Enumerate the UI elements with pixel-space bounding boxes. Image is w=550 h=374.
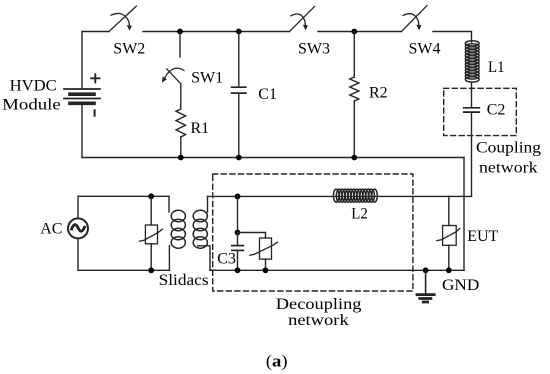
wire C3 bottom bbox=[237, 250, 239, 270]
node dot (R1 bottom) bbox=[178, 155, 184, 161]
transformer secondary lead bbox=[207, 196, 209, 212]
wire right drop from bottom rail to ground rail bbox=[463, 158, 465, 271]
svg-text:EUT: EUT bbox=[467, 228, 498, 245]
wire C3 mid to cap bbox=[237, 233, 239, 246]
battery plus sign bbox=[91, 74, 99, 82]
wire varistor branch bottom bbox=[150, 244, 152, 270]
wire C1 top bbox=[238, 32, 240, 88]
battery HVDC module bbox=[64, 89, 100, 103]
wire C2 down to AC line bbox=[471, 112, 473, 196]
wire to decoupling varistor bbox=[238, 233, 266, 239]
node dot (varistor bottom) bbox=[148, 267, 154, 273]
wire top rail SW2-SW3 segment bbox=[143, 31, 290, 33]
AC sine wave bbox=[72, 225, 85, 231]
node dot (C3 bottom) bbox=[235, 267, 241, 273]
wire R1 to bottom rail bbox=[180, 137, 182, 158]
svg-text:C2: C2 bbox=[487, 102, 506, 119]
transformer secondary coil bbox=[193, 210, 207, 248]
capacitor C3 bbox=[232, 246, 244, 251]
svg-text:R2: R2 bbox=[369, 85, 388, 102]
wire bottom rail bbox=[82, 157, 464, 159]
transformer primary lead bbox=[168, 196, 170, 212]
svg-text:Coupling: Coupling bbox=[476, 139, 541, 156]
node dot (C1 top) bbox=[236, 29, 242, 35]
wire battery bottom to bottom rail bbox=[81, 103, 83, 157]
wire C3 branch upper bbox=[237, 196, 239, 232]
node dot A (SW1 top) bbox=[177, 29, 183, 35]
ground bbox=[417, 270, 434, 302]
node dot (R2 bottom) bbox=[351, 155, 357, 161]
wire EUT branch bbox=[448, 196, 450, 225]
switch SW2 bbox=[109, 6, 136, 31]
svg-text:L1: L1 bbox=[488, 59, 505, 76]
node dot (R2 top) bbox=[351, 29, 357, 35]
wire decoupling varistor bottom bbox=[265, 259, 267, 270]
svg-text:SW2: SW2 bbox=[113, 40, 145, 57]
svg-text:C1: C1 bbox=[258, 86, 277, 103]
coupling network dashed box bbox=[444, 88, 517, 135]
resistor R1 bbox=[176, 109, 185, 137]
wire top rail SW3-SW4 segment bbox=[318, 31, 402, 33]
svg-text:network: network bbox=[288, 312, 349, 329]
switch SW1 bbox=[162, 68, 184, 84]
varistor (decoupling) diagonal bbox=[250, 242, 278, 255]
svg-text:SW4: SW4 bbox=[409, 41, 441, 58]
transformer primary exit bbox=[168, 246, 170, 270]
node dot (varistor top) bbox=[148, 193, 154, 199]
transformer primary coil bbox=[171, 210, 185, 248]
resistor R2 bbox=[350, 77, 359, 101]
svg-text:L2: L2 bbox=[351, 206, 368, 223]
inductor L2 bbox=[333, 189, 377, 202]
svg-text:SW1: SW1 bbox=[191, 70, 223, 87]
svg-text:AC: AC bbox=[40, 220, 62, 237]
node dot (GND stub) bbox=[423, 267, 429, 273]
svg-text:Module: Module bbox=[2, 96, 61, 113]
varistor (slidacs) diagonal bbox=[139, 229, 162, 241]
wire varistor branch top bbox=[150, 196, 152, 225]
wire C1 bottom bbox=[238, 93, 240, 157]
wire AC secondary top rail bbox=[208, 195, 472, 197]
node dot (C3 mid) bbox=[235, 230, 241, 236]
wire left vertical from battery top bbox=[81, 32, 83, 89]
wire top rail right segment to L1 corner bbox=[433, 32, 472, 43]
wire EUT bottom bbox=[448, 245, 450, 270]
wire L1 to C2 bbox=[471, 83, 473, 108]
switch SW3 bbox=[290, 7, 315, 32]
node dot (C3 top) bbox=[235, 194, 241, 200]
wire SW1 top stub bbox=[179, 32, 181, 58]
capacitor C2 bbox=[464, 108, 480, 112]
battery minus tick bbox=[94, 110, 96, 115]
node dot (decoupling varistor bottom) bbox=[263, 267, 269, 273]
wire AC bottom bbox=[78, 238, 169, 270]
node dot (EUT bottom) bbox=[446, 267, 452, 273]
EUT diagonal bbox=[437, 229, 460, 241]
svg-text:GND: GND bbox=[442, 277, 479, 294]
capacitor C1 bbox=[232, 87, 246, 93]
AC source circle bbox=[68, 218, 88, 238]
transformer secondary exit bbox=[198, 246, 213, 270]
svg-text:network: network bbox=[479, 160, 538, 177]
node dot (C1 bottom) bbox=[236, 155, 242, 161]
varistor (decoupling) box bbox=[260, 238, 272, 259]
svg-text:HVDC: HVDC bbox=[10, 77, 57, 94]
wire top rail left segment bbox=[82, 31, 109, 33]
svg-text:R1: R1 bbox=[191, 120, 210, 137]
svg-text:Decoupling: Decoupling bbox=[276, 296, 362, 313]
inductor L1 bbox=[465, 41, 479, 82]
varistor (slidacs) box bbox=[145, 225, 157, 244]
wire SW1 to R1 bbox=[180, 84, 182, 109]
svg-text:Slidacs: Slidacs bbox=[159, 272, 209, 289]
wire R2 bottom bbox=[353, 101, 355, 158]
svg-text:C3: C3 bbox=[217, 251, 236, 268]
wire AC top bbox=[78, 196, 169, 218]
svg-text:(a): (a) bbox=[266, 352, 288, 371]
EUT box bbox=[443, 226, 457, 246]
svg-text:SW3: SW3 bbox=[298, 40, 330, 57]
wire ground rail bbox=[210, 269, 464, 271]
switch SW4 bbox=[402, 6, 428, 32]
decoupling network dashed box bbox=[213, 174, 413, 291]
wire R2 top bbox=[353, 32, 355, 78]
